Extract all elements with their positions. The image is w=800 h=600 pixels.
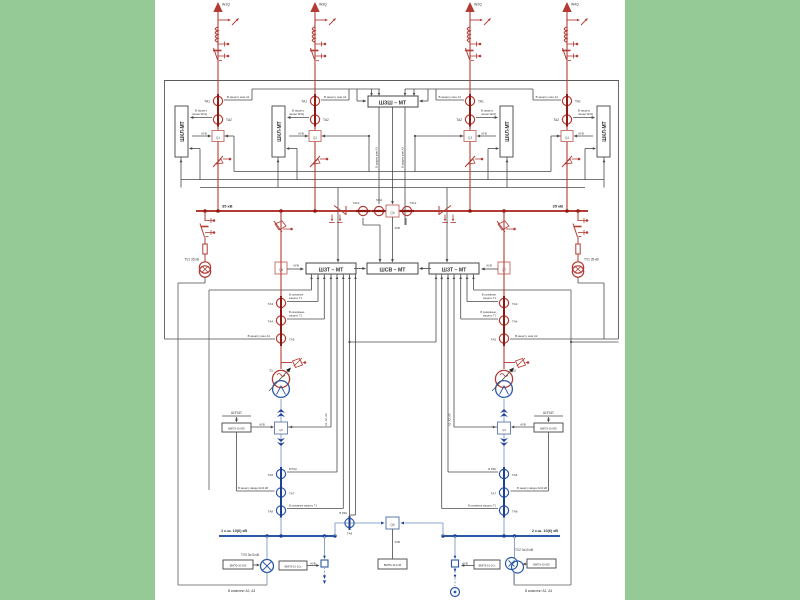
wire: collector drops into panel top — [371, 89, 373, 95]
bus junction — [576, 209, 580, 213]
svg-text:ТА11: ТА11 — [376, 198, 383, 202]
svg-text:В основные защиты Т1: В основные защиты Т1 — [289, 504, 317, 508]
wire: protection bundle left — [330, 274, 332, 427]
svg-text:В защиту шин А2: В защиту шин А2 — [401, 147, 405, 168]
svg-text:ТА4: ТА4 — [512, 320, 518, 324]
wire: TUZ to cabinet — [266, 573, 268, 586]
svg-text:В резервные: В резервные — [481, 310, 497, 314]
line protection panel ШКЛ-МТ — [175, 106, 188, 157]
frame: right bus-protection loop — [618, 81, 620, 340]
svg-text:ТУЗ 3х10 кВ: ТУЗ 3х10 кВ — [241, 553, 259, 557]
wire: protection bundle left — [323, 274, 325, 319]
CT TA11 — [374, 206, 383, 215]
svg-text:TV1 35 кВ: TV1 35 кВ — [584, 258, 599, 262]
svg-text:АУВ: АУВ — [310, 562, 316, 566]
svg-text:ТА3: ТА3 — [268, 302, 274, 306]
wire: TV1 secondary right — [577, 277, 579, 283]
wire: protection bundle left — [342, 274, 344, 509]
wire: line panel drop — [506, 157, 508, 188]
surge arrester branch — [504, 358, 529, 368]
bus junction — [313, 209, 317, 213]
wire: TA1 riser bay1 — [251, 89, 253, 100]
svg-text:ТА8: ТА8 — [268, 510, 274, 514]
svg-text:линии W1Q: линии W1Q — [192, 112, 208, 116]
transformer feeder red column — [497, 211, 516, 369]
svg-text:ШЗТ – МТ: ШЗТ – МТ — [442, 268, 468, 274]
sectionalizer panel — [378, 559, 407, 569]
wire: protection bundle right — [453, 274, 455, 427]
svg-text:В основные: В основные — [482, 293, 497, 297]
svg-text:ШЗТ – МТ: ШЗТ – МТ — [319, 268, 345, 274]
wire: TA8 protection — [442, 508, 498, 510]
svg-text:В РЗН: В РЗН — [488, 467, 496, 471]
frame: left inner edge — [208, 290, 210, 490]
svg-text:ТА6: ТА6 — [268, 473, 274, 477]
frame: right cabinet stub — [513, 572, 515, 585]
svg-text:ТА5: ТА5 — [491, 338, 497, 342]
bus junction — [441, 534, 444, 537]
svg-text:В защиту шин А2: В защиту шин А2 — [515, 334, 538, 338]
svg-text:ТА10: ТА10 — [353, 201, 360, 205]
line bay W4Q switchgear part — [561, 94, 580, 167]
svg-text:ТА2: ТА2 — [456, 118, 462, 122]
svg-text:В защиту шин А1: В защиту шин А1 — [248, 334, 271, 338]
wire: TV2 to cabinet — [514, 573, 516, 586]
svg-text:В защиту шин А1: В защиту шин А1 — [227, 95, 250, 99]
svg-text:ТА7: ТА7 — [491, 492, 497, 496]
wire: protection bundle right — [466, 274, 468, 302]
line bay W2Q switchgear part — [464, 94, 483, 167]
svg-text:ТА8: ТА8 — [512, 510, 518, 514]
aux link arrows — [236, 417, 238, 422]
bus junction — [216, 209, 220, 213]
aux transformer TUZ — [261, 560, 274, 573]
aux panel ШЭТАТ label — [222, 415, 251, 417]
frame: left bus-protection loop — [164, 81, 166, 340]
wire: QB AUV — [392, 529, 394, 559]
wire: bus1 riser — [334, 523, 336, 536]
svg-text:ВМПЭ-10-1Сх: ВМПЭ-10-1Сх — [479, 564, 497, 568]
frame: 35kV section top — [164, 80, 619, 82]
frame: right cabinet bottom — [514, 584, 571, 586]
busbar 35 kV — [196, 210, 588, 212]
wire: Q2 control drop — [321, 135, 369, 137]
wire: AUV interconnection 1 — [234, 171, 551, 173]
coupler disconnector right — [439, 206, 456, 223]
transformer breaker left — [275, 262, 287, 274]
surge arrester branch — [281, 358, 306, 368]
line bay W1Q switchgear part — [212, 94, 231, 167]
svg-text:В защиту ввода 3х10 кВ: В защиту ввода 3х10 кВ — [238, 486, 268, 490]
wire: protection bundle right — [473, 274, 475, 290]
wire: TA6 protection — [287, 471, 337, 473]
wire: line panel drop — [603, 157, 605, 188]
bus junction — [502, 209, 506, 213]
svg-text:В РЗН: В РЗН — [339, 511, 347, 515]
svg-text:Q5: Q5 — [390, 211, 394, 215]
wire: TA1 riser bay3 — [435, 89, 437, 100]
feeder panel box right — [474, 560, 500, 569]
wire: ШЗТ to ШСВ right — [421, 268, 431, 270]
wire: protection bundle right — [435, 274, 437, 342]
svg-text:Q2: Q2 — [313, 136, 317, 140]
svg-text:ТА7: ТА7 — [289, 492, 295, 496]
svg-text:защиты Т1: защиты Т1 — [289, 314, 303, 318]
transformer protection panel ШЗТ-МТ left — [306, 263, 356, 274]
bus junction — [323, 534, 326, 537]
power transformer — [492, 366, 516, 397]
wire: aux to TA7 left — [236, 432, 238, 491]
wire: drop to ШЗТ right — [446, 188, 448, 262]
wire: TV1 secondary left — [204, 277, 206, 283]
wire: TA10 to coupler protection — [362, 218, 364, 225]
wire: protection bundle left — [336, 274, 338, 472]
svg-text:В основные защиты Т1: В основные защиты Т1 — [468, 504, 496, 508]
svg-text:35 кВ: 35 кВ — [222, 204, 233, 209]
VT branch TV1 35 кВ — [573, 211, 588, 262]
CT TA12 — [402, 206, 411, 215]
wire: Q1 control drop — [224, 135, 234, 137]
svg-text:защиты Т1: защиты Т1 — [483, 314, 497, 318]
wire: bus2 riser — [442, 523, 444, 536]
svg-text:ВМПЭ-10-630: ВМПЭ-10-630 — [228, 427, 245, 431]
wire: protection bundle right — [447, 274, 449, 472]
svg-text:АУВ: АУВ — [293, 264, 299, 268]
aux breaker panel — [534, 423, 563, 432]
wire: TA4 protection — [287, 318, 324, 320]
wire: TA5 right to bus protection — [511, 338, 619, 340]
svg-text:Q4: Q4 — [565, 136, 569, 140]
svg-text:ШКЛ-МТ: ШКЛ-МТ — [602, 121, 608, 141]
svg-text:В защиту шин А1: В защиту шин А1 — [324, 95, 347, 99]
line bay W2Q incoming part — [465, 2, 492, 211]
voltage transformer — [572, 262, 583, 273]
svg-text:В комплект А2, А3: В комплект А2, А3 — [228, 589, 255, 593]
svg-text:В резервные: В резервные — [289, 310, 305, 314]
wire: TA3 protection — [287, 301, 318, 303]
svg-text:линии W2Q: линии W2Q — [481, 112, 497, 116]
station VT TV2 — [506, 558, 518, 570]
busbar section 2 10kV — [443, 535, 560, 537]
svg-text:АУВ: АУВ — [395, 540, 401, 544]
svg-text:W4Q: W4Q — [571, 3, 579, 7]
svg-text:ВМПЭ-10-630: ВМПЭ-10-630 — [533, 563, 550, 567]
svg-text:В защиту шин А1: В защиту шин А1 — [536, 95, 559, 99]
svg-text:W3Q: W3Q — [319, 3, 327, 7]
wire: TUZ drop — [266, 536, 268, 559]
fuse — [203, 244, 207, 254]
svg-text:ТА9: ТА9 — [347, 532, 353, 536]
CT TA9 — [345, 518, 354, 527]
svg-text:ТА2: ТА2 — [323, 118, 329, 122]
wire: TA5 left to bus protection — [165, 338, 275, 340]
line bay W3Q switchgear part — [309, 94, 328, 167]
wire: drop to ШЗТ left — [337, 188, 339, 262]
wire: panel to coupler 1 — [378, 107, 380, 204]
feeder panel box left — [279, 561, 307, 570]
wire: TA1 riser bay4 — [532, 89, 534, 100]
wire: protection bundle right — [460, 274, 462, 319]
line bay W1Q incoming part — [213, 2, 240, 211]
svg-text:В комплект А2, А3: В комплект А2, А3 — [525, 589, 552, 593]
transformer feeder red column — [274, 211, 293, 369]
bus junction — [279, 534, 282, 537]
wire: TA1 collector left — [252, 88, 380, 90]
transformer breaker right — [498, 262, 510, 274]
svg-text:TV2 3х10 кВ: TV2 3х10 кВ — [515, 548, 533, 552]
sectionalizer breaker QB — [386, 517, 399, 529]
svg-text:W2Q: W2Q — [474, 3, 482, 7]
wire: line panel drop — [277, 157, 279, 188]
line protection panel ШКЛ-МТ — [500, 106, 513, 157]
svg-text:ШКЛ-МТ: ШКЛ-МТ — [180, 121, 186, 141]
svg-text:ШЭТАТ: ШЭТАТ — [231, 411, 242, 415]
wire: protection bundle left — [349, 274, 351, 517]
svg-text:ТА5: ТА5 — [289, 338, 295, 342]
wire: panel to coupler 3 — [404, 107, 406, 225]
bus junction — [502, 534, 505, 537]
wire: Q6 AUV — [288, 426, 331, 428]
wire: aux to TA7 right — [548, 432, 550, 491]
busbar section 1 10kV — [219, 535, 335, 537]
frame: right VT loop — [603, 283, 605, 339]
wire: protection bundle left — [311, 274, 313, 290]
VT disconnector — [573, 224, 578, 238]
svg-text:W1Q: W1Q — [222, 3, 230, 7]
wire: Q5 AUV down — [392, 217, 394, 261]
outgoing feeder left — [324, 567, 326, 576]
svg-text:ТА2: ТА2 — [226, 118, 232, 122]
line protection panel ШКЛ-МТ — [597, 106, 610, 157]
svg-text:ВМПЭ-10-1Сх: ВМПЭ-10-1Сх — [285, 565, 303, 569]
svg-text:В основные: В основные — [289, 293, 304, 297]
svg-text:ШКЛ-МТ: ШКЛ-МТ — [505, 121, 511, 141]
svg-text:В защиту шин А1: В защиту шин А1 — [439, 95, 462, 99]
svg-text:ВМПЭ-10-630: ВМПЭ-10-630 — [230, 564, 247, 568]
svg-text:Q1: Q1 — [216, 136, 220, 140]
wire: TA1 riser bay2 — [348, 89, 350, 100]
bus junction — [513, 534, 516, 537]
svg-text:линии W4Q: линии W4Q — [578, 112, 594, 116]
aux link arrows — [548, 417, 550, 422]
line bay W4Q incoming part — [562, 2, 589, 211]
svg-text:АУВ: АУВ — [259, 423, 265, 427]
svg-text:АУВ: АУВ — [298, 132, 304, 136]
svg-text:ВМПЭ-10-1СВ: ВМПЭ-10-1СВ — [384, 563, 402, 567]
svg-text:ТА6: ТА6 — [512, 473, 518, 477]
wire: bundle to inner frame right — [474, 289, 572, 291]
frame: left cabinet stub — [266, 572, 268, 585]
wire: TA1 collector right — [405, 88, 533, 90]
svg-text:А1, А2, А3: А1, А2, А3 — [448, 413, 452, 426]
wire: protection bundle left — [317, 274, 319, 302]
svg-text:В РЗН: В РЗН — [289, 467, 297, 471]
svg-text:ТА3: ТА3 — [512, 302, 518, 306]
line bay W3Q wiring — [286, 116, 325, 180]
wire: Q6 AUV — [454, 426, 497, 428]
frame: left cabinet bottom — [178, 584, 267, 586]
aux panel ШЭТАТ label — [534, 415, 563, 417]
fuse — [576, 244, 580, 254]
svg-text:Q8: Q8 — [279, 428, 283, 432]
svg-text:ВМПЭ-10-630: ВМПЭ-10-630 — [540, 427, 557, 431]
line bay W4Q wiring — [557, 116, 596, 180]
wire: line panel drop — [180, 157, 182, 188]
svg-text:линии W3Q: линии W3Q — [289, 112, 305, 116]
voltage transformer — [199, 262, 210, 273]
svg-text:ШСВ – МТ: ШСВ – МТ — [380, 268, 407, 274]
bus junction — [203, 209, 207, 213]
wire: right cabinet to frame — [571, 341, 619, 343]
frame: left cabinet edge — [177, 283, 179, 585]
svg-text:Q9: Q9 — [502, 428, 506, 432]
wire: RZN link to TA9 — [350, 514, 356, 516]
wire: AUV interconnection 3 — [200, 187, 585, 189]
svg-text:1 с.ш. 10(6) кВ: 1 с.ш. 10(6) кВ — [221, 529, 247, 533]
bus junction — [468, 209, 472, 213]
svg-text:ШЗШ – МТ: ШЗШ – МТ — [379, 100, 407, 106]
wire: cross connection — [350, 341, 437, 343]
blue secondary column — [498, 399, 511, 536]
transformer protection panel ШЗТ-МТ right — [429, 263, 479, 274]
wire: bundle to inner frame left — [209, 289, 312, 291]
line bay W3Q incoming part — [310, 2, 337, 211]
bus junction — [265, 534, 268, 537]
svg-text:ТА1: ТА1 — [575, 100, 581, 104]
svg-text:ШКЛ-МТ: ШКЛ-МТ — [277, 121, 283, 141]
wire: protection bundle right — [441, 274, 443, 509]
wire: TV2 drop — [514, 536, 516, 558]
blue secondary column — [275, 399, 288, 536]
line bay W1Q wiring — [189, 116, 228, 180]
VT panel box right — [527, 559, 556, 568]
svg-text:АУВ: АУВ — [520, 423, 526, 427]
wire: Q4 control drop — [551, 135, 561, 137]
svg-text:ШЭТАТ: ШЭТАТ — [543, 411, 554, 415]
bus junction — [453, 534, 456, 537]
svg-text:QB: QB — [390, 523, 395, 527]
bus junction — [333, 534, 336, 537]
svg-text:35 кВ: 35 кВ — [553, 204, 564, 209]
coupler breaker Q5 — [386, 205, 399, 217]
frame: right cabinet edge — [570, 290, 572, 585]
wire: Q3 control drop — [415, 135, 464, 137]
VT disconnector — [200, 224, 205, 238]
wire: TA5 to bus protection — [510, 338, 511, 340]
svg-text:ТА4: ТА4 — [268, 320, 274, 324]
svg-text:Т1: Т1 — [269, 369, 273, 373]
coupler protection panel ШСВ-МТ — [367, 263, 418, 274]
svg-text:АУВ: АУВ — [486, 264, 492, 268]
svg-text:АУВ: АУВ — [481, 132, 487, 136]
svg-text:АУВ: АУВ — [395, 226, 401, 230]
svg-text:АУВ: АУВ — [201, 132, 207, 136]
busbar protection panel ШЗШ-МТ — [368, 96, 418, 107]
feeder switch right — [454, 536, 456, 558]
svg-text:ТА1: ТА1 — [301, 100, 307, 104]
line protection panel ШКЛ-МТ — [272, 106, 285, 157]
wire: ШЗТ to ШСВ left — [354, 268, 364, 270]
CT TA10 — [358, 206, 367, 215]
VT branch TV1 35 кВ — [200, 211, 215, 262]
svg-text:Q3: Q3 — [468, 136, 472, 140]
wire: AUV interconnection 2 — [181, 179, 604, 181]
power transformer — [269, 366, 293, 397]
wire: panel to coupler 2 — [392, 107, 394, 203]
svg-text:ТА2: ТА2 — [553, 118, 559, 122]
wire: protection bundle left — [355, 274, 357, 515]
svg-text:Т2: Т2 — [512, 369, 516, 373]
line bay W2Q wiring — [460, 116, 499, 180]
wire: TA6 protection — [448, 471, 498, 473]
svg-text:защиты Т1: защиты Т1 — [483, 296, 497, 300]
feeder switch left — [324, 536, 326, 558]
aux breaker panel — [222, 423, 251, 432]
svg-text:2 с.ш. 10(6) кВ: 2 с.ш. 10(6) кВ — [532, 529, 558, 533]
coupler disconnector left — [329, 206, 346, 223]
svg-text:ТА12: ТА12 — [410, 201, 417, 205]
svg-text:АУВ: АУВ — [578, 132, 584, 136]
svg-text:TV1 35 кВ: TV1 35 кВ — [184, 258, 199, 262]
wire: TA4 protection — [461, 318, 498, 320]
bus junction — [565, 209, 569, 213]
svg-text:ТА1: ТА1 — [204, 100, 210, 104]
wire: TA12 drop — [405, 218, 407, 225]
wire: TA3 protection — [467, 301, 498, 303]
outgoing cable right — [454, 567, 456, 586]
wire: TA5 to bus protection — [274, 338, 275, 340]
wire: TA8 protection — [287, 508, 343, 510]
svg-text:защиты Т1: защиты Т1 — [289, 296, 303, 300]
svg-text:А1, А2, А3: А1, А2, А3 — [324, 413, 328, 426]
svg-text:В защиту ввода 3х10 кВ: В защиту ввода 3х10 кВ — [517, 486, 547, 490]
bus junction — [279, 209, 283, 213]
svg-text:В защиту шин А1: В защиту шин А1 — [375, 147, 379, 168]
aux panel box left — [223, 560, 253, 569]
svg-text:ТА1: ТА1 — [478, 100, 484, 104]
